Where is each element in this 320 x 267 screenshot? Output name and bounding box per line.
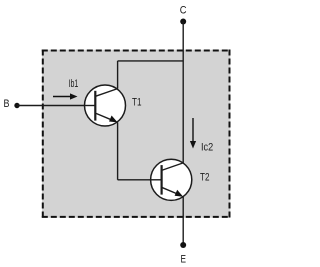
- node E junction dot: [180, 242, 186, 248]
- wire T1 collector lead vertical: [117, 61, 119, 89]
- subcircuit dashed box: [42, 50, 231, 218]
- node B junction dot: [14, 103, 19, 108]
- current arrow Ib1: [53, 93, 78, 99]
- svg-text:E: E: [180, 253, 186, 265]
- transistor T1: [85, 85, 126, 126]
- node C junction dot: [180, 19, 186, 25]
- transistor T2 label: [200, 172, 210, 184]
- node C label: [180, 5, 187, 17]
- node E label: [180, 253, 186, 265]
- wire T2 emitter to E: [182, 197, 184, 245]
- transistor T1 label: [132, 97, 142, 109]
- svg-text:Ic2: Ic2: [201, 142, 213, 154]
- wire base B to T1: [17, 105, 95, 107]
- wire T1 emitter to T2 base: [118, 122, 162, 179]
- wire collector C vertical: [182, 22, 184, 163]
- wire collector branch horizontal to T1: [118, 60, 184, 62]
- svg-text:B: B: [4, 98, 10, 110]
- node B label: [4, 98, 10, 110]
- svg-text:T1: T1: [132, 97, 142, 109]
- current label Ib1: [69, 78, 79, 90]
- current label Ic2: [201, 142, 213, 154]
- current arrow Ic2: [190, 118, 196, 149]
- svg-text:Ib1: Ib1: [69, 78, 79, 90]
- svg-text:T2: T2: [200, 172, 210, 184]
- svg-text:C: C: [180, 5, 187, 17]
- transistor T2: [151, 159, 192, 200]
